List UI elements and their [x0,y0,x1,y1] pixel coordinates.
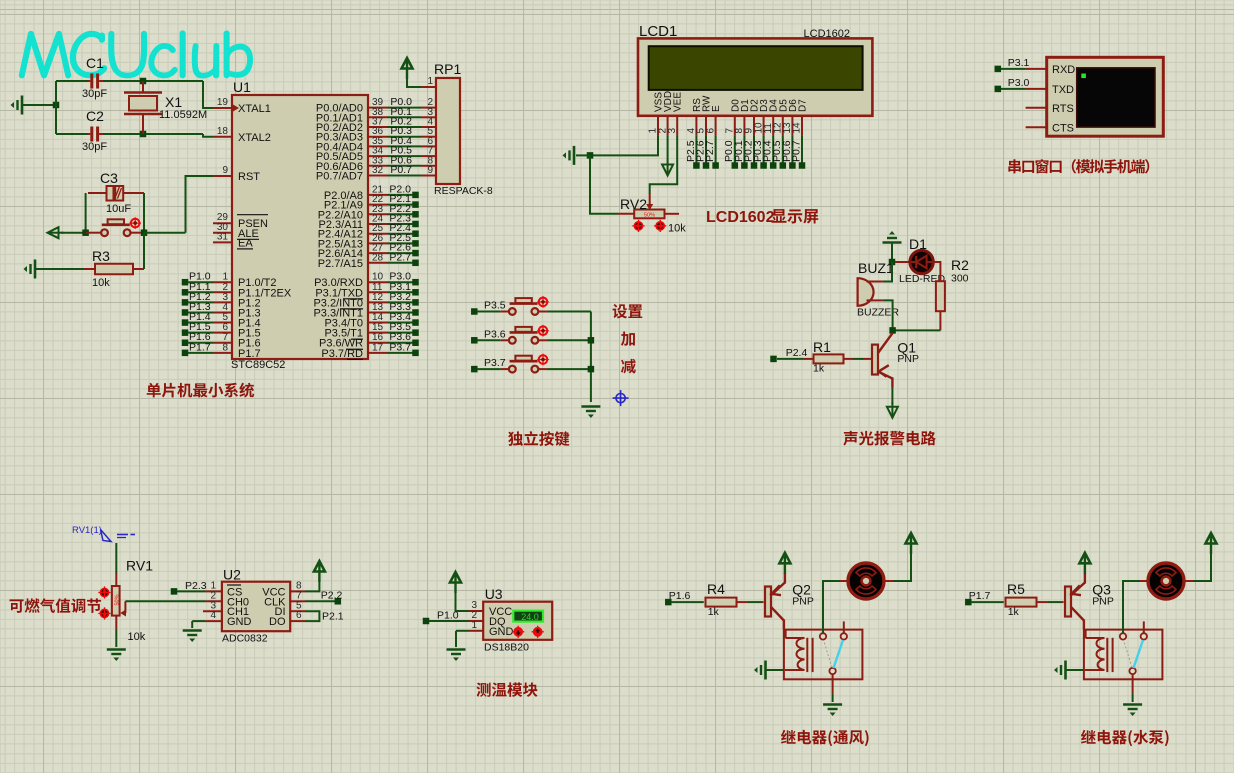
svg-text:P2.7: P2.7 [389,251,411,263]
U1 pin 19 XTAL1 [213,107,232,109]
resistor R5 [971,601,1004,603]
terminal P3.0 [995,86,1002,93]
U2 pin 1 CS [177,590,205,592]
relay coil [1085,630,1087,638]
U1 pin 2 P1.1 + terminal P1.1 [182,289,189,296]
svg-text:P2.3: P2.3 [185,580,207,592]
label 声光报警电路 [843,431,857,446]
wire C2 left lead [56,133,88,135]
U3 temperature display [513,611,543,622]
svg-text:RV1(1): RV1(1) [72,525,102,536]
terminal P3.7 [471,366,478,373]
U1 pin 9 RST [213,175,232,177]
label 设置 [613,304,628,318]
relay contact NO [1141,633,1147,639]
capacitor C3 (10uF) [107,186,114,201]
U3 down button [514,628,522,636]
svg-text:RTS: RTS [1052,103,1074,115]
svg-text:32: 32 [372,165,384,176]
wire RV1 wiper to U2 CH0 [125,600,205,602]
svg-text:GND: GND [489,626,514,638]
node junction (VSS/RV2) [587,152,594,159]
potentiometer RV1 [112,586,120,616]
potentiometer RV2 [618,213,634,215]
wire C3 left down [85,193,87,233]
U1 pin 31 EA [213,241,232,243]
svg-text:10uF: 10uF [106,203,131,215]
U3 pin 2 DQ [429,620,469,622]
svg-text:P3.6: P3.6 [484,328,506,340]
ground arrow (reset) [50,232,64,234]
svg-text:50%: 50% [644,213,655,219]
serial pin TXD [1026,88,1047,90]
svg-text:P3.1: P3.1 [1008,57,1030,69]
XTAL1 pin arrow [233,105,239,112]
wire pole to ground [1132,679,1134,693]
wire DI-DO tie (P2.1) [305,611,319,621]
svg-text:P3.5: P3.5 [484,300,506,312]
wire C3 right down [143,193,145,233]
button marker P3.7 [539,355,548,364]
LED D1 [895,261,910,263]
ground (relay pole) [1123,703,1142,706]
wire R3 to node [143,233,145,269]
wire junction to RV2 [590,155,618,213]
relay pole ghost [1124,641,1132,668]
svg-text:C2: C2 [86,108,104,124]
node junction C1/C2 left [53,102,60,109]
svg-text:D1: D1 [909,236,927,252]
label 加 [621,332,635,346]
wire power to junction [891,243,893,263]
transistor Q3 PNP [1065,587,1071,617]
U1 pin 4 P1.3 + terminal P1.3 [182,309,189,316]
svg-text:14: 14 [792,122,803,134]
keys common rail [590,312,592,403]
U1 pin 6 P1.5 + terminal P1.5 [182,329,189,336]
svg-text:18: 18 [217,126,229,137]
relay contact pole [1129,668,1135,674]
svg-text:P1.0: P1.0 [437,609,459,621]
wire R2 to collector node [939,311,941,330]
svg-text:LCD1602: LCD1602 [804,28,850,40]
relay core [1106,638,1108,672]
U3 up button [534,628,542,636]
svg-text:X1: X1 [165,94,182,110]
relay contact pole [829,668,835,674]
buzzer BUZ1 [858,278,874,306]
svg-text:ADC0832: ADC0832 [222,633,268,645]
RV1 up button [100,588,108,596]
svg-text:VEE: VEE [673,92,684,112]
svg-text:BUZ1: BUZ1 [858,260,894,276]
wire probe to RV1 [115,543,117,574]
ground (left of C1/C2) [21,96,24,115]
svg-text:1: 1 [427,76,433,87]
capacitor C1 [90,74,93,89]
svg-text:P3.7/RD: P3.7/RD [321,348,363,360]
terminal P2.3 [171,588,178,595]
svg-text:DS18B20: DS18B20 [484,642,529,654]
relay coil [785,630,787,638]
ground (keys) [581,405,600,408]
terminal P3.6 [471,337,478,344]
origin marker (blue) [616,394,625,403]
relay contact common [1120,633,1126,639]
ground arrow (Q1) [891,402,893,416]
ground (R3) [34,260,37,279]
U1 pin 8 P1.7 + terminal P1.7 [182,350,189,357]
U3 pin 3 VCC [469,610,484,612]
svg-text:30pF: 30pF [82,141,107,153]
U1 pin 5 P1.4 + terminal P1.4 [182,319,189,326]
wire junction to ground [576,154,590,156]
push button P3.6 [477,339,501,341]
svg-text:P1.7: P1.7 [189,341,211,353]
wire gnd-arrow to button [61,232,86,234]
relay pole blade (cyan) [1134,640,1144,668]
svg-text:28: 28 [372,252,384,263]
U1 pin 29 PSEN [213,222,232,224]
power terminal (Q3) [1084,556,1086,574]
svg-text:CTS: CTS [1052,122,1074,134]
RV1 wiper arrow [120,610,126,617]
svg-text:P2.2: P2.2 [321,590,343,602]
svg-text:P2.4: P2.4 [786,347,808,359]
ground (coil) [1064,661,1067,680]
label 串口窗口（模拟手机端） [1008,159,1020,173]
svg-text:R4: R4 [707,581,725,597]
RV1 down button [100,609,108,617]
RV2 wiper arrow [649,194,651,206]
svg-text:24.0: 24.0 [521,612,539,622]
wire power to U3 VCC [456,586,469,611]
U1 pin 3 P1.2 + terminal P1.2 [182,299,189,306]
svg-text:P1.7: P1.7 [238,348,261,360]
svg-text:U2: U2 [223,567,241,583]
svg-text:LCD1602: LCD1602 [706,209,775,226]
resistor R4 [671,601,704,603]
svg-text:300: 300 [951,273,969,285]
button marker P3.5 [539,298,548,307]
wire motor to power [1193,554,1211,581]
svg-text:1k: 1k [1008,606,1020,618]
ground arrow (VDD) [667,160,669,174]
U3 body [483,602,552,640]
U1 pin 30 ALE [213,232,232,234]
push button P3.7 [477,368,501,370]
svg-text:P1.7: P1.7 [969,590,991,602]
svg-text:50%: 50% [114,594,120,605]
terminal P1.7 [965,599,972,606]
svg-text:RST: RST [238,171,260,183]
RP1 body [436,78,460,184]
svg-text:P3.7: P3.7 [389,341,411,353]
serial window body [1047,57,1164,136]
svg-text:RP1: RP1 [434,61,461,77]
terminal P2.4 [770,356,777,363]
svg-text:P3.7: P3.7 [484,357,506,369]
U2 pin 4 GND [205,620,222,622]
relay coil ground wire [1066,669,1084,671]
label 单片机最小系统 [147,383,161,397]
terminal P3.1 [995,66,1002,73]
relay coil ground wire [766,669,784,671]
node junction reset left [82,229,89,236]
wire ground to junction [22,104,56,106]
svg-text:R3: R3 [92,248,110,264]
label 测温模块 [476,682,490,696]
svg-text:U1: U1 [233,79,251,95]
button marker P3.6 [539,326,548,335]
svg-text:P0.7: P0.7 [790,140,802,162]
svg-text:U3: U3 [485,586,503,602]
node junction D1/BUZ1 [889,259,896,266]
svg-text:D7: D7 [798,99,809,112]
wire RV1 bottom to ground [115,616,117,630]
label 减 [621,359,636,374]
capacitor C2 [90,127,93,142]
svg-text:R2: R2 [951,257,969,273]
svg-text:C1: C1 [86,55,104,71]
relay contact NO [841,633,847,639]
svg-text:LCD1: LCD1 [639,23,677,40]
wire power to RP1 pin1 [407,72,421,87]
terminal P3.5 [471,308,478,315]
svg-text:P3.0: P3.0 [1008,77,1030,89]
svg-text:E: E [711,105,722,112]
svg-text:XTAL2: XTAL2 [238,132,271,144]
wire R1 to Q1 base [853,358,863,360]
terminal P1.0 [423,618,430,625]
wire common to motor [1123,581,1140,633]
reset button marker [131,219,140,228]
svg-text:6: 6 [705,128,716,134]
transistor Q1 PNP [872,345,878,375]
relay contact common [820,633,826,639]
label 继电器(通风) [781,730,796,744]
label 可燃气值调节 [10,599,24,613]
serial pin RTS [1026,107,1047,109]
relay pole ghost [824,641,832,668]
ground (relay pole) [823,703,842,706]
svg-text:R1: R1 [813,339,831,355]
LCD1 screen [649,46,863,90]
svg-text:3: 3 [667,128,678,134]
svg-text:P0.7: P0.7 [390,164,412,176]
relay box (通风) [784,630,863,680]
node junction reset right [141,229,148,236]
wire Q1 emitter down [891,388,893,405]
U3 pin 1 GND [469,630,484,632]
relay box (水泵) [1084,630,1163,680]
svg-text:RV2: RV2 [620,196,647,212]
wire BUZ1 top [883,262,892,282]
svg-text:TXD: TXD [1052,84,1074,96]
transistor Q2 PNP [765,587,771,617]
wire R5 to Q3 base [1048,601,1061,603]
svg-text:9: 9 [427,165,433,176]
svg-text:11.0592M: 11.0592M [159,109,207,121]
node junction Q1 collector [889,327,896,334]
svg-text:19: 19 [217,97,229,108]
U1 pin 7 P1.6 + terminal P1.6 [182,339,189,346]
svg-text:31: 31 [217,231,229,242]
RV2 minus button [634,222,642,230]
svg-text:GND: GND [227,616,252,628]
ground (coil) [764,661,767,680]
svg-text:EA: EA [238,237,253,249]
svg-text:8: 8 [222,342,228,353]
svg-text:4: 4 [210,610,216,621]
power terminal (U2) [318,564,320,582]
svg-text:30pF: 30pF [82,88,107,100]
svg-text:PNP: PNP [1092,596,1114,608]
svg-text:1k: 1k [708,606,720,618]
U2 pin 8 VCC [290,590,305,592]
relay core [806,638,808,672]
power terminal (motor) [910,536,912,554]
terminal P2.2 [335,598,342,605]
label 继电器(水泵) [1081,730,1096,744]
svg-text:R5: R5 [1007,581,1025,597]
svg-text:RXD: RXD [1052,64,1075,76]
svg-text:P2.7: P2.7 [704,140,716,162]
ground (RV1) [107,648,126,651]
svg-text:DO: DO [269,616,286,628]
RV2 plus button [656,222,664,230]
push button RESET [86,232,101,234]
wire C1 left lead [55,81,57,134]
svg-text:RESPACK-8: RESPACK-8 [434,185,493,197]
U1 pin 1 P1.0 + terminal P1.0 [182,279,189,286]
wire button to RST [144,232,186,234]
wire VDD down [667,135,669,160]
U2 pin 6 DO [290,620,305,622]
svg-text:C3: C3 [100,170,118,186]
node junction X1 top [140,78,147,85]
wire pole to ground [832,679,834,693]
RP1 pin1 stub [421,86,436,88]
label 独立按键 [508,431,523,446]
LCD1 body [638,38,872,115]
power terminal (motor) [1210,536,1212,554]
MCUclub logo [20,32,71,78]
wire C2 to XTAL2 [103,133,203,135]
svg-text:1: 1 [471,620,477,631]
svg-text:XTAL1: XTAL1 [238,103,271,115]
U2 pin 7 CLK [290,600,305,602]
resistor R1 [777,358,803,360]
node junction X1 bottom [140,131,147,138]
resistor R3 [35,268,83,270]
U1 body [232,95,368,359]
ground (LCD VSS) [573,146,576,165]
svg-text:PNP: PNP [897,353,919,365]
U2 pin 3 CH1 [203,610,222,612]
svg-text:STC89C52: STC89C52 [231,359,285,371]
wire motor to power [893,554,911,581]
motor [840,580,848,582]
crystal X1 [142,81,144,93]
svg-text:PNP: PNP [792,596,814,608]
power terminal (U3) [454,575,456,593]
serial window screen [1077,68,1155,127]
svg-text:10k: 10k [668,223,686,235]
power rail symbol (alarm) [883,241,902,244]
ground (U3) [447,648,466,651]
svg-text:P1.6: P1.6 [669,590,691,602]
wire D1 to R2 [933,262,940,281]
motor [1140,580,1148,582]
wire R4 to Q2 base [748,601,761,603]
svg-text:9: 9 [222,165,228,176]
serial pin CTS [1026,126,1047,128]
node junction key2 [588,337,595,344]
wire VSS to ground [592,135,658,155]
svg-text:17: 17 [372,342,384,353]
svg-text:P2.7/A15: P2.7/A15 [318,258,363,270]
U2 pin 2 CH0 [205,600,222,602]
ground (U2) [183,629,202,632]
node junction key3 [588,366,595,373]
svg-text:1k: 1k [813,363,825,375]
svg-text:RV1: RV1 [126,558,153,574]
relay pole blade (cyan) [834,640,844,668]
wire BUZ1 bottom [883,300,893,330]
U2 body [222,582,290,632]
wire C1 to XTAL1 [103,80,203,82]
U2 pin 5 DI [290,610,305,612]
svg-text:10k: 10k [128,631,146,643]
wire common to motor [823,581,840,633]
svg-text:P2.1: P2.1 [322,611,344,623]
resistor R2 [936,281,945,311]
wire VEE to RV2 wiper [650,135,678,194]
push button P3.5 [477,311,501,313]
svg-text:6: 6 [296,610,302,621]
svg-text:10k: 10k [92,277,110,289]
U1 pin 18 XTAL2 [213,136,232,138]
terminal P1.6 [665,599,672,606]
serial pin RXD [1026,68,1047,70]
power terminal (RP1) [406,61,408,79]
svg-text:P0.7/AD7: P0.7/AD7 [316,171,363,183]
power terminal (Q2) [784,556,786,574]
